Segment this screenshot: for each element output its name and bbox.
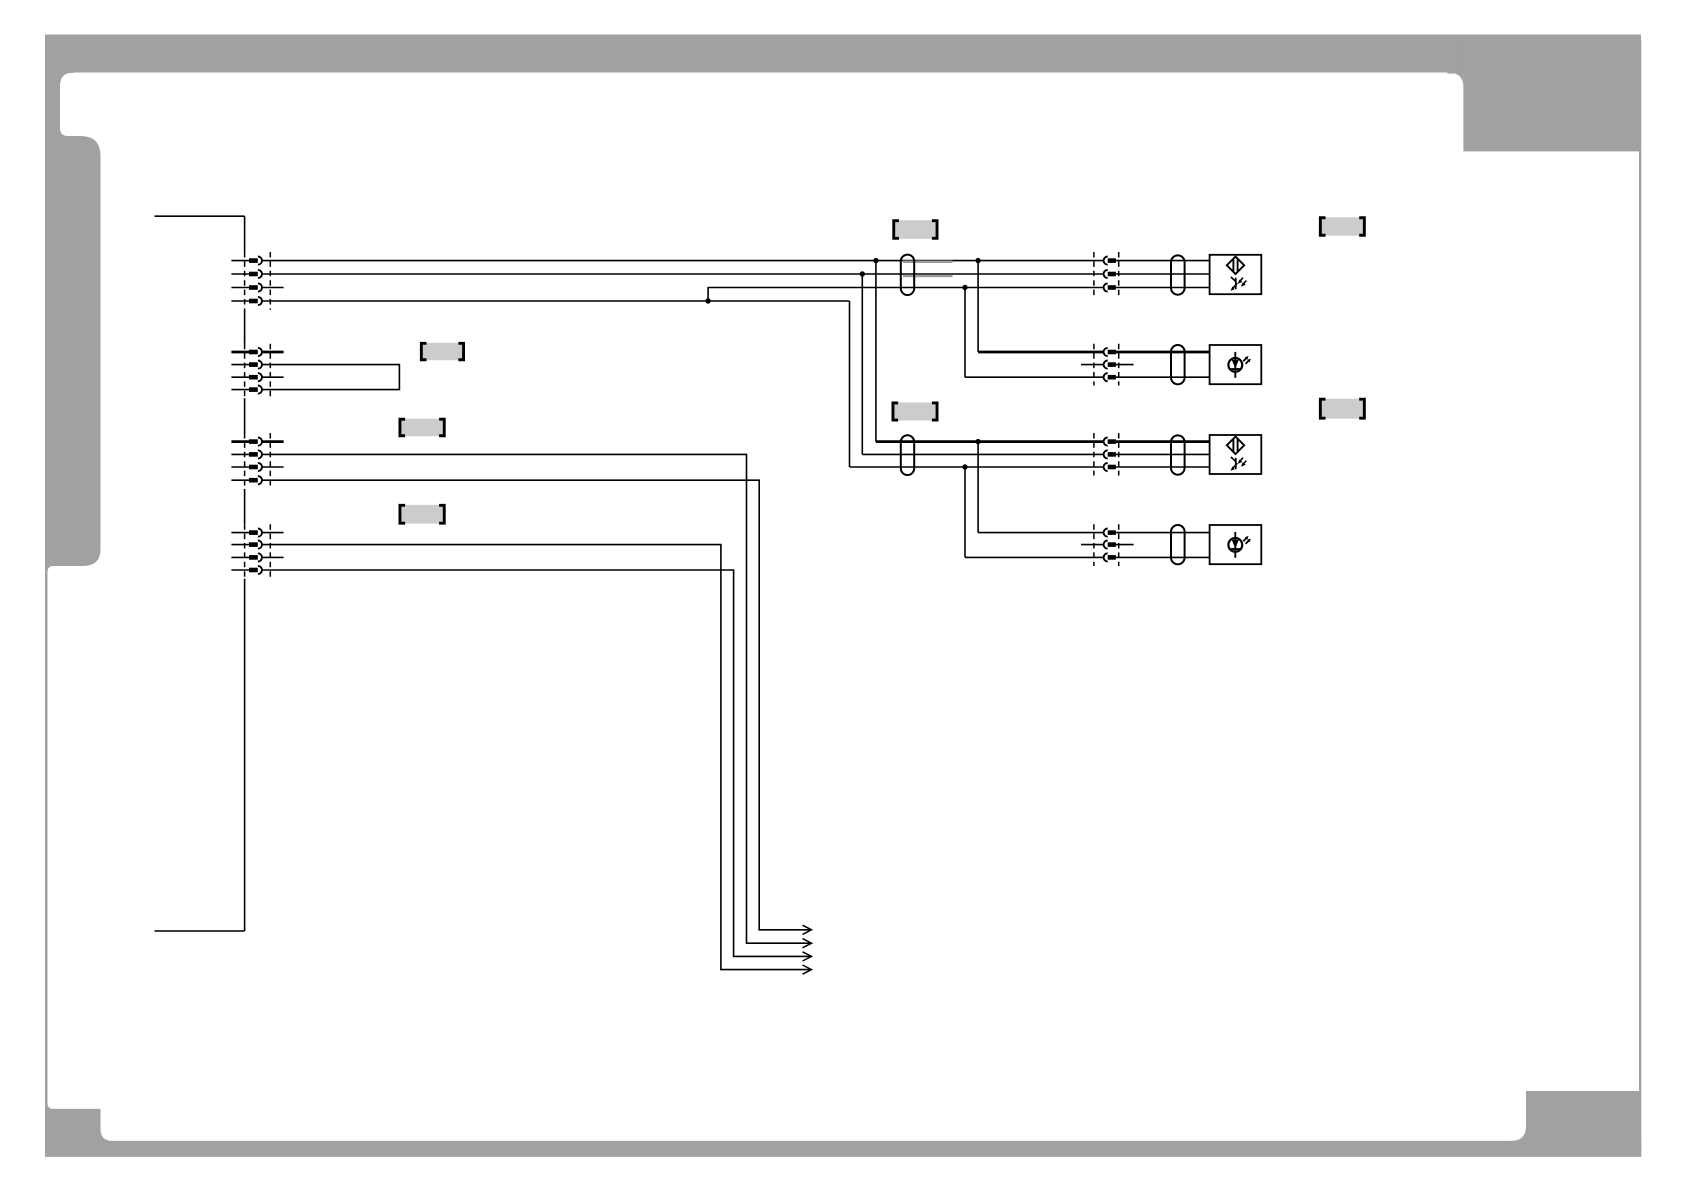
receiver PS3 connector pin 3 [1104,463,1116,471]
LED PS2 connector pin 3 [1104,373,1116,381]
wire CN4 pin4 down to output arrow 3 [262,570,811,956]
LED PS2 connector pin 2 [1104,361,1116,369]
wire to LED PS4 pin3 [965,556,1104,558]
wire stub CN2 pin 1 (bold) [262,351,284,354]
junction node G (PS3 row3 / drop to PS4 pin3) [962,464,967,469]
connector CN4 pin 4 [231,566,262,574]
label box (CN3 reference) [400,419,444,437]
connector CN3 pin 4 [231,476,262,484]
receiver PS1 connector pin 1 [1104,257,1116,265]
connector CN4 pin 2 [231,541,262,549]
wire stub LED PS4 pin2 (left) [1081,544,1104,546]
label box (cable 1 reference) [894,220,937,239]
connector CN1 pin 2 [231,270,262,278]
wire vertical drop x=978.1 (lower) to LED PS4 pin1 row [977,442,979,533]
main board outline top edge [155,215,245,217]
connector CN3 pin 1 [231,438,262,446]
wire CN1 pin4 horizontal run [262,300,850,302]
wire vertical drop x=965 (lower) to LED PS4 pin3 row [964,467,966,557]
photo sensor PS3 (receiver) [1210,435,1262,474]
LED PS4 connector pin 1 [1104,529,1116,537]
output arrow 4 (from CN4 pin2) [803,965,812,974]
wire vertical drop x=978.1 to LED PS2 pin1 row [977,261,979,352]
photo sensor PS1 (receiver) [1210,255,1262,294]
wire CN1 pin2 to sensor PS1 connector pin2 [262,273,1104,275]
wire (bold) to LED PS2 pin1 [978,351,1104,354]
cable shield oval at LED PS4 [1171,525,1185,564]
junction node A (row1 / drop to PS3) [873,258,878,263]
receiver PS3 connector pin 1 [1104,438,1116,446]
receiver PS3 connector pin 2 [1104,450,1116,458]
photo sensor PS2 (LED emitter) [1210,345,1262,384]
wire stub LED PS4 pin2 (right) [1116,544,1134,546]
wire stub CN4 pin 3 [262,556,284,558]
cable bundle (shield oval) for sensor pair 1 [901,255,914,295]
junction node B (row1 / drop to PS2) [975,258,980,263]
wire CN3 pin4 down to output arrow 1 [262,480,811,930]
connector CN2 pin 1 [231,348,262,356]
wire into receiver PS1 box pin3 [1116,287,1210,289]
wire vertical drop x=965 to LED PS2 pin3 row [964,288,966,378]
junction node E (row3 / drop to PS2 pin3) [962,285,967,290]
receiver PS1 connector pin 2 [1104,270,1116,278]
wire into receiver PS1 box pin2 [1116,273,1210,275]
connector housing dashed boundary lines (sensor-side connectors) [1094,252,1119,566]
wire to receiver PS3 pin2 [862,453,1103,455]
wire (bold) to receiver PS3 pin1 [876,440,1104,443]
wire (bold) into receiver PS3 box pin1 [1116,440,1210,443]
wire stub LED PS2 pin2 (right) [1116,364,1134,366]
wire into LED PS4 box pin3 [1116,556,1210,558]
wire loop CN2 pin2 to CN2 pin4 [262,365,399,390]
main board outline bottom edge [155,930,245,932]
LED PS4 connector pin 2 [1104,541,1116,549]
wire CN1 pin1 to sensor PS1 connector pin1 [262,260,1104,262]
label box (cable 2 reference) [893,403,937,421]
connector CN1 pin 3 [231,283,262,291]
wire vertical drop x=849.5 to receiver PS3 pin3 row [849,301,851,467]
connector CN4 pin 3 [231,553,262,561]
wire CN4 pin2 down to output arrow 4 [262,545,811,970]
wire branch up from node J4 to sensor PS1 connector pin3 [708,288,1104,302]
wire to receiver PS3 pin3 [850,466,1104,468]
output arrow 2 (from CN3 pin2) [803,939,812,948]
connector CN3 pin 2 [231,450,262,458]
wire stub CN3 pin 3 [262,466,284,468]
receiver PS1 connector pin 3 [1104,283,1116,291]
wire stub LED PS2 pin2 (left) [1081,364,1104,366]
harness gray wire segment row1 [903,261,953,264]
wire into receiver PS3 box pin3 [1116,466,1210,468]
junction node F (PS3 row1 / drop to PS4 pin1) [975,439,980,444]
wire into LED PS4 box pin1 [1116,532,1210,534]
wire stub CN4 pin 1 [262,532,284,534]
cable shield oval at receiver PS3 [1171,435,1185,474]
wire to LED PS4 pin1 [978,532,1104,534]
junction node C (row2 / drop to PS3 pin2) [860,271,865,276]
connector CN1 pin 4 [231,297,262,305]
label box (CN2 reference) [421,343,463,360]
label box (PS1 reference) [1320,217,1364,235]
LED PS2 connector pin 1 [1104,348,1116,356]
output arrow 1 (from CN3 pin4) [803,925,812,934]
wire vertical drop x=875.9 to receiver PS3 pin1 row [875,261,877,442]
wire (bold) into LED PS2 box pin1 [1116,351,1210,354]
junction node D (row4 branch) [705,298,710,303]
connector CN2 pin 2 [231,361,262,369]
wire stub CN2 pin 3 [262,376,284,378]
label box (PS3 reference) [1320,399,1364,419]
connector CN4 pin 1 [231,529,262,537]
wire into receiver PS3 box pin2 [1116,453,1210,455]
connector CN2 pin 3 [231,373,262,381]
connector CN3 pin 3 [231,463,262,471]
wire into receiver PS1 box pin1 [1116,260,1210,262]
harness gray wire segment row2 [903,275,953,278]
connector housing dashed boundary lines (left connectors CN1-CN4) [245,252,271,579]
wire stub CN3 pin 1 (bold) [262,440,284,443]
connector CN1 pin 1 [231,257,262,265]
cable shield oval at LED PS2 [1171,345,1185,384]
LED PS4 connector pin 3 [1104,553,1116,561]
wire vertical drop x=862.3 to receiver PS3 pin2 row [861,274,863,454]
wire into LED PS2 box pin3 [1116,376,1210,378]
wire to LED PS2 pin3 [965,376,1104,378]
wire CN3 pin2 down to output arrow 2 [262,454,811,943]
cable shield oval at receiver PS1 [1171,255,1185,294]
cable bundle (shield oval) for sensor pair 2 [901,435,914,475]
wire: board right edge vertical bus [244,216,246,931]
label box (CN4 reference) [400,505,444,524]
connector CN2 pin 4 [231,386,262,394]
photo sensor PS4 (LED emitter) [1210,525,1262,564]
output arrow 3 (from CN4 pin4) [803,952,812,961]
wire stub CN1 pin 3 [262,287,284,289]
